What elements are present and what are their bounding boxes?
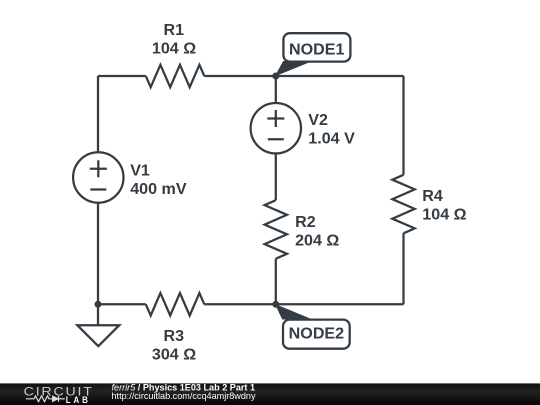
wire left vertical lower xyxy=(97,203,99,305)
CircuitLab logo resistor-diode squiggle xyxy=(26,396,65,402)
wire top-left horizontal xyxy=(98,75,146,77)
voltage source V2 xyxy=(251,103,301,153)
node NODE1 callout xyxy=(276,33,351,75)
wire right vertical lower xyxy=(402,233,404,304)
wire top-right horizontal xyxy=(204,75,403,77)
wire bottom from ground node to R3 xyxy=(98,303,146,305)
svg-text:NODE1: NODE1 xyxy=(289,41,344,59)
svg-text:R1: R1 xyxy=(164,21,185,39)
wire right vertical upper xyxy=(402,76,404,175)
junction at NODE2 xyxy=(272,301,279,308)
node NODE2 callout xyxy=(276,305,350,349)
resistor R1 xyxy=(146,65,205,87)
svg-text:1.04 V: 1.04 V xyxy=(308,130,355,148)
junction at NODE1 xyxy=(272,73,279,80)
resistor R2 xyxy=(265,200,287,259)
svg-text:204 Ω: 204 Ω xyxy=(295,232,339,250)
wire bottom from R3 to right corner xyxy=(204,303,403,305)
resistor R3 xyxy=(146,293,205,315)
wire middle below R2 xyxy=(275,259,277,305)
wire left vertical upper xyxy=(97,76,99,152)
ground xyxy=(77,304,119,346)
wire middle branch top xyxy=(275,76,277,103)
svg-text:V2: V2 xyxy=(308,111,328,129)
voltage source V1 xyxy=(73,152,123,202)
svg-text:400 mV: 400 mV xyxy=(130,180,187,198)
svg-text:NODE2: NODE2 xyxy=(289,325,344,343)
svg-text:http://circuitlab.com/ccq4amjr: http://circuitlab.com/ccq4amjr8wdny xyxy=(112,391,256,401)
svg-text:R4: R4 xyxy=(422,187,443,205)
svg-text:R2: R2 xyxy=(295,213,316,231)
junction at ground node xyxy=(95,301,102,308)
resistor R4 xyxy=(392,175,414,234)
footer bar xyxy=(0,383,540,405)
svg-text:304 Ω: 304 Ω xyxy=(152,345,196,363)
svg-text:V1: V1 xyxy=(130,161,150,179)
svg-text:LAB: LAB xyxy=(66,395,91,405)
wire middle between V2 and R2 xyxy=(275,153,277,200)
svg-text:104 Ω: 104 Ω xyxy=(152,40,196,58)
svg-text:104 Ω: 104 Ω xyxy=(422,206,466,224)
svg-text:R3: R3 xyxy=(164,327,185,345)
